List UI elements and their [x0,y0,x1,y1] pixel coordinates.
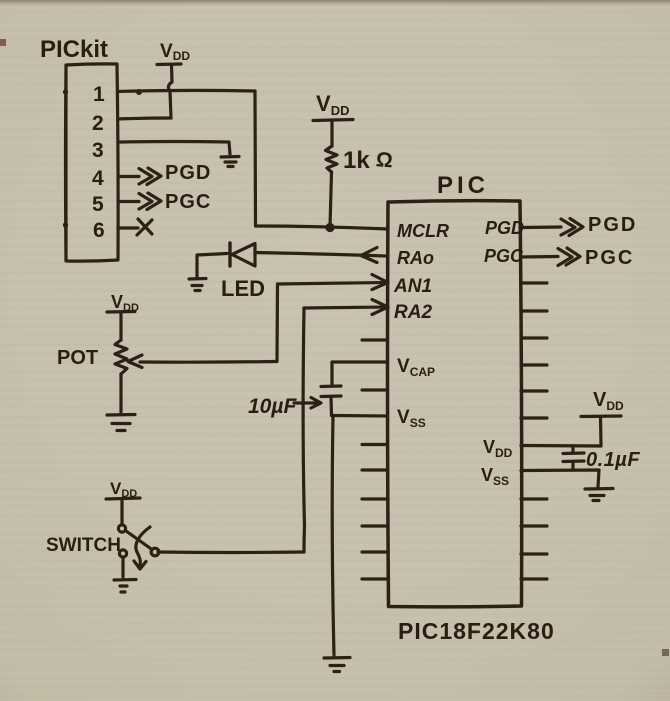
svg-text:PGD: PGD [588,214,637,236]
svg-text:1: 1 [93,83,105,106]
pin stub right 7 [521,389,547,392]
switch SW1 actuator arrow [136,527,150,565]
wire PGD out [521,225,561,229]
pin stub left 9 [362,443,387,446]
svg-text:PGC: PGC [585,247,634,269]
wire VCAP net [332,362,387,385]
node RA0 arrowhead [361,248,377,263]
pin stub left 14 [362,577,387,580]
potentiometer POT [115,340,127,374]
ground (VSS bottom) [324,658,350,672]
pin stub left 12 [362,524,387,527]
connector J1 PICkit box [66,64,119,261]
capacitor C2 0.1uF [571,446,574,453]
pin stub left 5 [362,338,387,341]
ground (pin3) [221,157,239,167]
svg-text:6: 6 [93,219,105,242]
wire cap to VSS [329,397,333,415]
svg-text:PGD: PGD [485,218,524,238]
diode D1 LED [228,243,231,266]
pin stub right 14 [521,577,547,580]
switch SW1 right contact [151,548,159,556]
pin stub right 3 [521,281,547,284]
svg-text:Ω: Ω [375,148,393,172]
capacitor C1 10uF [321,386,341,397]
ground (right VSS) [585,489,613,501]
wire VDD to resistor [330,120,333,146]
svg-text:AN1: AN1 [393,276,432,297]
svg-text:LED: LED [221,276,265,301]
pin stub left 13 [362,550,387,553]
node POT wiper arrowhead [128,355,142,368]
power VDD symbol (above switch) [106,498,140,499]
svg-text:3: 3 [92,139,104,162]
wire VSS pin right to ground [521,470,599,487]
power VDD symbol (above POT) [107,310,135,314]
wire POT to ground [119,374,122,412]
pin stub right 12 [521,524,547,527]
svg-text:4: 4 [92,167,104,190]
wire diode to RA0 [255,253,387,257]
ground (switch) [114,580,136,593]
pin stub right 6 [521,363,547,366]
wire VDD to pin2 [168,65,172,119]
wire RA0/LED net [197,254,227,278]
power VDD symbol (above resistor R1) [313,120,353,121]
switch SW1 top contact [118,525,125,532]
node pin5 chevrons [139,193,161,210]
resistor R1 1k [326,146,338,172]
svg-text:0.1µF: 0.1µF [586,449,640,471]
power VDD symbol (above PICkit) [157,62,181,66]
pin stub right 11 [521,497,547,500]
wire VDD pin right [521,417,601,446]
svg-text:MCLR: MCLR [397,221,449,241]
wire VSS to bottom ground [332,416,334,655]
wire pin3 to ground [118,142,230,155]
pin stub left 10 [362,468,387,471]
svg-text:RAo: RAo [397,248,434,268]
wire pin1 to MCLR (horizontal + vertical) [118,90,255,91]
pin stub right 8 [521,416,547,419]
svg-text:PGC: PGC [484,246,524,266]
power VDD symbol (right) [581,414,621,418]
svg-text:PIC18F22K80: PIC18F22K80 [398,618,555,644]
node PGD chevrons [561,219,583,236]
wire pin5 stub [118,200,139,203]
node MCLR junction dot [325,223,334,232]
speck right edge [662,649,669,656]
wire resistor to MCLR node [330,172,332,227]
svg-text:PICkit: PICkit [40,36,108,63]
svg-text:1k: 1k [343,147,370,174]
speck left edge [0,39,6,46]
chip U1 PIC outline [388,201,522,607]
node X mark pin6 [137,219,152,235]
wire VSS pin [332,414,388,418]
pin stub right 13 [521,552,547,555]
wire pin2 [118,118,171,119]
node RA2 arrowhead [372,300,388,315]
node pin1 junction dot [63,89,68,94]
svg-text:5: 5 [92,193,104,216]
pin stub left 7 [362,388,387,391]
svg-text:PIC: PIC [437,172,489,199]
wire pin4 stub [118,175,139,178]
wire pin6 stub [118,226,138,229]
svg-text:PGC: PGC [165,191,211,213]
node pin6 junction dot [63,222,68,227]
pin stub left 11 [362,497,387,500]
node blob on pin1 wire [136,89,142,95]
node pin4 chevrons [139,168,161,185]
node PGC chevrons [558,248,580,266]
wire AN1 net [278,283,388,285]
svg-text:2: 2 [92,112,104,135]
switch SW1 lever [126,531,152,550]
svg-text:RA2: RA2 [394,302,432,323]
wire VDD to POT [119,312,122,340]
ground (POT) [107,415,135,431]
svg-text:POT: POT [57,347,98,369]
ground (LED) [189,279,206,291]
svg-text:PGD: PGD [165,162,211,184]
wire switch lower to ground [121,558,124,578]
pin stub right 4 [521,309,547,312]
node 10uF label arrow [294,398,321,409]
wire PGC out [521,255,558,259]
svg-text:10µF: 10µF [248,395,297,418]
svg-text:SWITCH: SWITCH [46,535,121,556]
wire VDD to switch [120,499,123,524]
wire RA2 net [304,307,387,308]
switch SW1 lower contact [119,550,126,557]
pin stub right 5 [521,336,547,339]
node AN1 arrowhead [372,275,388,290]
